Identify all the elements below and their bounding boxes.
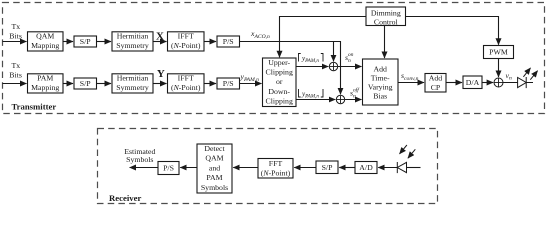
svg-text:P/S: P/S <box>163 164 174 173</box>
svg-text:(N-Point): (N-Point) <box>171 83 201 92</box>
svg-text:S/P: S/P <box>322 163 334 172</box>
svg-text:Symmetry: Symmetry <box>116 83 149 92</box>
svg-text:Down-: Down- <box>268 87 290 96</box>
svg-text:S/P: S/P <box>80 37 92 46</box>
svg-text:QAM: QAM <box>36 32 54 41</box>
svg-text:D/A: D/A <box>466 78 480 87</box>
svg-text:(N-Point): (N-Point) <box>261 169 291 178</box>
svg-text:FFT: FFT <box>269 159 283 168</box>
svg-text:Tx: Tx <box>12 22 21 31</box>
svg-text:Mapping: Mapping <box>31 83 59 92</box>
svg-text:Bits: Bits <box>9 70 22 79</box>
svg-text:Mapping: Mapping <box>31 41 59 50</box>
svg-text:Varying: Varying <box>368 82 393 91</box>
svg-text:Time-: Time- <box>371 73 390 82</box>
svg-text:Control: Control <box>374 17 399 26</box>
svg-text:Add: Add <box>373 64 387 73</box>
svg-text:Symmetry: Symmetry <box>116 41 149 50</box>
svg-text:Hermitian: Hermitian <box>117 74 149 83</box>
svg-text:Bits: Bits <box>9 32 22 41</box>
svg-text:PAM: PAM <box>37 74 53 83</box>
svg-text:PAM: PAM <box>206 173 222 182</box>
svg-text:P/S: P/S <box>223 37 234 46</box>
svg-text:Add: Add <box>429 74 443 83</box>
svg-text:Clipping: Clipping <box>266 68 293 77</box>
svg-text:QAM: QAM <box>205 154 223 163</box>
svg-text:Tx: Tx <box>12 61 21 70</box>
svg-text:(N-Point): (N-Point) <box>171 41 201 50</box>
svg-text:Detect: Detect <box>204 144 225 153</box>
svg-text:Transmitter: Transmitter <box>12 101 57 111</box>
svg-text:P/S: P/S <box>223 79 234 88</box>
svg-text:Hermitian: Hermitian <box>117 32 149 41</box>
svg-text:Receiver: Receiver <box>109 193 141 203</box>
svg-text:Symbols: Symbols <box>126 155 153 164</box>
svg-text:Dimming: Dimming <box>371 8 401 17</box>
svg-text:IFFT: IFFT <box>178 74 194 83</box>
svg-text:S/P: S/P <box>80 79 92 88</box>
svg-text:CP: CP <box>431 83 441 92</box>
svg-text:Bias: Bias <box>373 91 387 100</box>
svg-text:and: and <box>209 163 220 172</box>
svg-text:PWM: PWM <box>489 48 508 57</box>
svg-text:Y: Y <box>157 68 165 80</box>
svg-text:or: or <box>276 77 283 86</box>
svg-text:Clipping: Clipping <box>266 97 293 106</box>
svg-text:IFFT: IFFT <box>178 32 194 41</box>
svg-text:X: X <box>156 30 164 42</box>
svg-text:Upper-: Upper- <box>268 58 290 67</box>
svg-text:Symbols: Symbols <box>201 183 228 192</box>
svg-text:A/D: A/D <box>359 163 373 172</box>
